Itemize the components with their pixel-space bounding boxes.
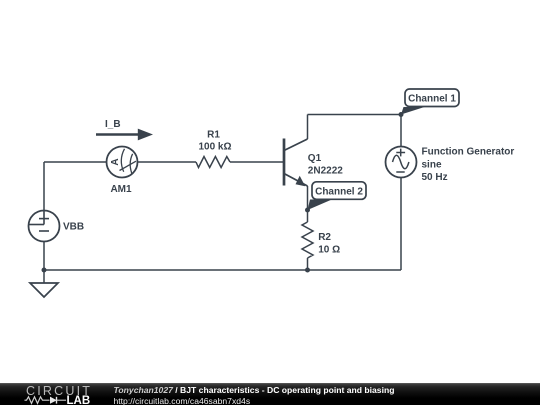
svg-text:A: A <box>110 158 121 165</box>
wire bottom rail <box>44 269 401 271</box>
svg-text:100 kΩ: 100 kΩ <box>198 142 231 153</box>
CircuitLab logo <box>0 383 110 405</box>
footer credit text <box>114 383 395 406</box>
node: top rail / Channel 1 <box>399 112 404 117</box>
wire R1 to Q1 base <box>230 161 283 163</box>
current arrow I_B <box>96 129 153 141</box>
callout Channel 1 <box>401 89 459 115</box>
ground <box>30 283 58 297</box>
svg-text:VBB: VBB <box>63 222 84 233</box>
svg-text:Q1: Q1 <box>308 153 322 164</box>
svg-text:R2: R2 <box>318 232 331 243</box>
node: R2 bottom junction <box>305 268 310 273</box>
voltage source VBB <box>29 211 60 242</box>
footer bar <box>0 383 540 405</box>
wire R2 to bottom rail <box>307 258 309 270</box>
logo diode <box>50 397 57 404</box>
svg-text:10 Ω: 10 Ω <box>318 245 340 256</box>
wire Q1 emitter to node <box>307 186 309 210</box>
wire left vertical VBB top <box>43 162 45 211</box>
svg-text:I_B: I_B <box>105 119 121 130</box>
svg-text:LAB: LAB <box>67 395 91 405</box>
wire top rail <box>308 114 402 116</box>
wire Q1 collector vertical <box>307 115 309 140</box>
svg-text:sine: sine <box>422 160 442 171</box>
svg-text:AM1: AM1 <box>110 184 132 195</box>
wire ground stub <box>43 270 45 283</box>
svg-text:R1: R1 <box>207 130 220 141</box>
wire base row left: VBB column to ammeter <box>44 161 107 163</box>
svg-text:Channel 1: Channel 1 <box>408 94 456 105</box>
svg-text:2N2222: 2N2222 <box>308 165 343 176</box>
resistor R2 <box>302 222 313 258</box>
wire emitter node to R2 <box>307 210 309 222</box>
svg-text:50 Hz: 50 Hz <box>422 172 448 183</box>
resistor R1 <box>196 157 230 168</box>
svg-text:Channel 2: Channel 2 <box>315 186 363 197</box>
transistor Q1 <box>284 139 308 187</box>
wire function generator top to node <box>400 115 402 147</box>
wire ammeter to R1 <box>138 161 197 163</box>
function generator V1 <box>386 147 417 178</box>
node: ground junction <box>42 268 47 273</box>
wire right vertical: rail to function generator <box>400 178 402 271</box>
ammeter AM1 <box>107 147 138 178</box>
logo resistor squiggle <box>25 397 50 404</box>
callout Channel 2 <box>308 182 367 210</box>
wire VBB bottom to ground node <box>43 242 45 271</box>
svg-text:Function Generator: Function Generator <box>422 146 515 157</box>
node: emitter / Channel 2 <box>305 208 310 213</box>
